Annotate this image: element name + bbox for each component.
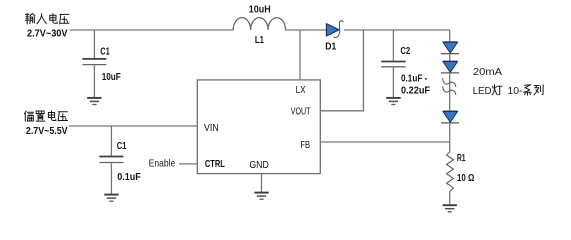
node VIN label 输入电压 bbox=[25, 13, 69, 24]
capacitor C1 bias bbox=[99, 126, 123, 195]
svg-text:10uF: 10uF bbox=[102, 71, 122, 83]
svg-text:D1: D1 bbox=[325, 40, 336, 52]
svg-text:20mA: 20mA bbox=[473, 66, 502, 78]
op-amp U1 IC body bbox=[197, 80, 320, 174]
LED 2 bbox=[441, 62, 459, 73]
wire LED branch top bbox=[449, 30, 451, 42]
svg-text:0.1uF -: 0.1uF - bbox=[401, 72, 428, 84]
wire rail diode to LED branch bbox=[344, 29, 450, 31]
ground IC GND bbox=[254, 193, 268, 200]
node bias label 偏置电压 bbox=[24, 111, 67, 122]
svg-text:C1: C1 bbox=[100, 46, 110, 58]
wire GND stub bbox=[261, 174, 263, 193]
svg-text:FB: FB bbox=[300, 139, 310, 151]
break marks (series continues) bbox=[443, 78, 456, 95]
svg-text:Enable: Enable bbox=[149, 157, 176, 169]
svg-text:10uH: 10uH bbox=[249, 3, 271, 15]
svg-text:LED: LED bbox=[473, 85, 492, 97]
svg-text:C1: C1 bbox=[117, 140, 127, 152]
diode D1 bbox=[326, 21, 343, 38]
svg-text:VIN: VIN bbox=[204, 122, 219, 134]
svg-text:CTRL: CTRL bbox=[205, 158, 225, 170]
capacitor C2 bbox=[381, 30, 405, 98]
svg-text:2.7V~30V: 2.7V~30V bbox=[27, 28, 68, 39]
svg-text:R1: R1 bbox=[457, 152, 466, 164]
svg-text:L1: L1 bbox=[255, 34, 264, 46]
wire LX drop bbox=[299, 30, 301, 80]
wire FB net bbox=[320, 141, 449, 143]
wire LED3 to R1 bbox=[449, 123, 451, 152]
ground C1 bias bbox=[104, 195, 118, 202]
capacitor C1 input bbox=[82, 30, 106, 98]
wire bias rail bbox=[69, 125, 197, 127]
svg-text:10 Ω: 10 Ω bbox=[457, 172, 474, 184]
wire through break bbox=[449, 73, 451, 111]
wire VOUT riser bbox=[320, 30, 363, 111]
svg-text:VOUT: VOUT bbox=[291, 105, 311, 117]
wire input rail bbox=[70, 29, 234, 31]
LED 3 bbox=[441, 112, 459, 123]
svg-text:0.22uF: 0.22uF bbox=[401, 84, 431, 96]
inductor L1 bbox=[233, 18, 285, 30]
wire between LED1 LED2 bbox=[449, 54, 451, 62]
wire Enable to CTRL bbox=[179, 163, 197, 165]
svg-text:LX: LX bbox=[296, 84, 306, 96]
ground C2 bbox=[386, 98, 400, 105]
svg-text:2.7V~5.5V: 2.7V~5.5V bbox=[26, 126, 68, 137]
ground C1 input bbox=[87, 98, 101, 105]
ground R1 bbox=[443, 205, 457, 212]
svg-text:GND: GND bbox=[249, 159, 269, 171]
LED 1 bbox=[441, 42, 459, 53]
wire rail inductor to diode bbox=[286, 29, 328, 31]
wire R1 to ground bbox=[449, 192, 451, 206]
annotation LED灯 10-系列 bbox=[473, 85, 543, 97]
svg-text:C2: C2 bbox=[400, 45, 410, 57]
resistor R1 bbox=[447, 152, 454, 192]
svg-text:0.1uF: 0.1uF bbox=[117, 171, 141, 183]
svg-text:10-: 10- bbox=[508, 85, 523, 97]
